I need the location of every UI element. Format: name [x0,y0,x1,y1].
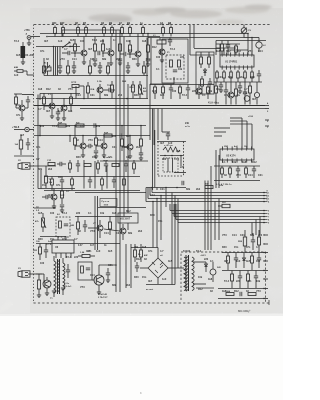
svg-text:C21: C21 [258,174,263,177]
IF transformer L1 [157,40,166,44]
resistor R35 [58,124,66,127]
transistor VT14 [51,194,57,200]
wire ic2 top3 [251,124,253,149]
resistor R33 [43,97,46,104]
ground VT2e [93,63,97,65]
transistor VT20 [97,87,103,93]
wire y207 [98,207,146,209]
svg-text:Py re ra: Py re ra [102,200,110,203]
svg-text:R1E: R1E [130,87,135,89]
resistor R85 [37,280,40,289]
capacitor C63 [124,163,128,165]
svg-text:40B: 40B [14,66,18,69]
svg-text:R40: R40 [150,214,155,217]
svg-text:68k: 68k [104,94,109,97]
resistor R28 [162,87,165,93]
svg-text:C 04 142: C 04 142 [98,293,108,296]
resistor R73 [132,85,135,92]
test point TPA [27,36,31,40]
pin stub psu 4 [264,260,268,262]
svg-text:VT3: VT3 [248,50,253,53]
svg-text:+40B: +40B [29,54,35,57]
resistor R55 [140,250,143,257]
pin stub psu 1 [264,234,268,236]
wire vertical trunk C [123,37,125,217]
svg-text:24F: 24F [205,183,209,186]
wire osc down [251,38,253,56]
svg-text:R12: R12 [198,288,203,291]
module B2 outline [196,52,214,94]
transistor VT19 power [94,275,104,285]
svg-text:R40: R40 [222,246,227,249]
resistor R80 [221,44,224,51]
capacitor C36 [135,265,139,267]
filter sub-box dashed [163,158,178,172]
oscillator coil L2 [256,42,262,48]
potentiometer R74 [139,85,142,94]
ground VT9 [50,115,54,117]
resistor R58 [243,237,246,246]
capacitor C14 [238,85,242,87]
wire bridge conn [157,248,159,259]
resistor R99 [123,179,126,185]
wire bundle v3 [57,47,59,76]
pin stub right bus2 [265,108,269,110]
capacitor C64 [60,179,64,181]
svg-text:+TB.8: +TB.8 [12,125,20,129]
capacitor C57 [243,91,247,93]
capacitor C52 [72,65,76,67]
wire psu verticals [171,193,173,285]
svg-text:C14: C14 [104,232,109,235]
svg-text:R40: R40 [76,156,81,159]
resistor R92 [84,164,91,167]
svg-text:MG 909у¹: MG 909у¹ [238,309,251,313]
svg-text:15n: 15n [42,184,47,187]
wire bundle v1 [53,47,55,76]
svg-text:4k7: 4k7 [44,40,49,43]
svg-text:1k8: 1k8 [242,161,247,164]
wire vertical trunk D [127,84,129,208]
svg-text:100: 100 [40,262,45,265]
capacitor C10 [168,39,172,41]
svg-text:47n: 47n [148,250,153,253]
IC U2 [220,149,254,160]
capacitor C15 el [254,92,259,97]
svg-text:C21: C21 [116,232,121,235]
svg-text:1n0: 1n0 [152,90,157,93]
wire psu feed [131,247,158,249]
transistor VT9 [49,103,55,109]
wire top links y75 [44,75,148,77]
svg-text:T2.4: T2.4 [66,256,72,259]
capacitor C13 [219,84,223,86]
svg-text:VT3: VT3 [256,290,261,293]
wire ic2 left feeds [214,127,230,129]
wire bridge feeds [152,202,154,248]
svg-text:R47: R47 [60,22,65,25]
resistor R17 [119,44,122,51]
capacitor C7 [118,58,122,60]
wire mb verticals [115,244,117,293]
svg-text:0.1: 0.1 [156,68,160,71]
diode VD1 [17,70,23,73]
pin stub psu 7 [264,288,268,290]
svg-text:100: 100 [50,212,55,215]
svg-text:1n0: 1n0 [162,278,167,281]
svg-text:0.1: 0.1 [248,280,252,283]
svg-text:68k: 68k [186,188,191,191]
capacitor C38 el [210,269,216,275]
wire if trunk 1 [146,38,148,99]
resistor R25 [251,72,254,78]
resistor R62 [231,274,234,281]
wire bus line 7 [174,216,264,218]
svg-text:R40: R40 [132,58,137,61]
resistor R82 [215,86,218,93]
svg-text:100: 100 [162,158,167,161]
svg-text:~24 V: ~24 V [200,254,206,257]
diode VD8 [243,258,246,260]
wire bus line 4 [146,201,264,203]
svg-text:47n: 47n [62,238,67,241]
svg-text:100: 100 [172,90,177,93]
wire bus hooks [151,188,153,193]
resistor R61 [251,256,254,263]
wire mid link [148,37,196,39]
svg-text:R12: R12 [126,135,131,138]
svg-text:1P7F: 1P7F [71,82,77,84]
svg-text:VT3: VT3 [68,88,73,91]
svg-text:0n5: 0n5 [16,54,21,57]
capacitor C40 [234,257,238,259]
ground VT19 [97,291,101,293]
detector box Z2 [157,141,186,143]
pin stub psu 5 [264,270,268,272]
svg-text:47n: 47n [40,50,45,53]
svg-text:ac rect: ac rect [146,288,153,291]
svg-text:2k2: 2k2 [240,76,245,79]
svg-text:4.7: 4.7 [74,238,78,241]
wire row2 y176 [44,176,140,178]
wire vert 177 [165,188,167,208]
wire vertical trunk A [115,30,117,244]
svg-text:220: 220 [236,280,241,283]
svg-text:10k: 10k [96,125,101,128]
capacitor C24 [88,144,90,148]
ground VT8 [20,117,24,119]
transistor VT8 [19,105,25,111]
wire y163 [100,160,148,162]
capacitor C17 [186,87,190,89]
resistor R15 [94,44,97,51]
resistor R38 [74,138,77,145]
wire under U1 [214,81,262,83]
svg-text:VT3: VT3 [222,234,227,237]
resistor R76 [67,66,70,73]
svg-text:0.1: 0.1 [80,125,84,128]
pin stub r3 [265,125,269,127]
block A1 dashed [56,217,70,237]
resistor R23 [237,72,240,78]
resistor R60 [227,256,230,263]
box DC BAT [118,213,138,223]
svg-text:4.7: 4.7 [160,250,164,253]
wire bus line 2 [150,195,264,197]
resistor R49 [221,168,224,174]
capacitor C6 [97,51,99,55]
node top1 [55,33,57,35]
resistor R97 [71,179,74,185]
svg-text:C14: C14 [150,194,155,197]
capacitor C28 [60,204,64,206]
svg-text:100: 100 [186,250,191,253]
resistor R59 [258,237,261,245]
svg-text:1n0: 1n0 [96,250,101,253]
capacitor C53 [98,65,102,67]
svg-text:+TPA: +TPA [24,29,30,32]
svg-text:10k: 10k [100,212,105,215]
capacitor C62 [104,163,108,165]
svg-text:0n5: 0n5 [160,94,165,97]
wire u2 bottom [214,180,260,182]
svg-text:+150: +150 [248,116,254,118]
svg-text:15n: 15n [16,104,21,107]
svg-text:4k7: 4k7 [48,194,53,197]
wire preamp h208 [34,207,56,209]
wire v drop1 [39,126,41,136]
wire row3 y190 [44,190,140,192]
svg-text:1k8: 1k8 [222,290,227,293]
wire row y98 [36,98,148,100]
svg-text:1k8: 1k8 [208,278,213,281]
pin stub psu 6 [264,278,268,280]
svg-text:R12: R12 [152,46,157,49]
connector X3 speaker [18,271,22,277]
wire psu row2 [222,270,264,272]
svg-text:+DC BAT: +DC BAT [120,218,130,221]
svg-text:68k: 68k [112,284,117,287]
resistor R45 [77,222,80,229]
wire psu row3 [218,288,264,290]
wire bus drop 3 [214,202,216,241]
svg-text:15n: 15n [158,220,163,223]
svg-text:4R4: 4R4 [52,22,57,25]
svg-text:1k8: 1k8 [216,50,221,53]
svg-text:1k8: 1k8 [112,135,117,138]
svg-text:R4E: R4E [122,80,127,83]
svg-text:1k8: 1k8 [112,212,117,215]
svg-text:0n5: 0n5 [168,260,173,263]
wire U1 top pins [228,49,248,51]
resistor R77 [89,66,92,73]
transistor VT2 [81,50,87,56]
capacitor C16 [169,87,173,89]
wire bus drop 2 [251,223,253,236]
svg-text:m 1a: m 1a [185,126,191,128]
IC U1 tuner [220,55,254,67]
wire vertical trunk B [119,30,121,244]
box bias [78,262,92,280]
resistor R32 [19,140,22,149]
svg-text:220: 220 [180,56,185,59]
wire y188 [38,188,75,190]
svg-text:VT3: VT3 [80,286,85,289]
wire bundle v4 [59,47,61,63]
wire left drop to IC [215,41,217,56]
wire if trunk 2 [150,38,152,85]
svg-text:2k2: 2k2 [126,284,131,287]
svg-text:2k2: 2k2 [116,58,121,61]
svg-text:T2.4: T2.4 [224,280,230,283]
transistor VT15 [97,225,103,231]
wire right bus drop [196,37,244,39]
resistor R93 [97,163,100,169]
wire vert 157 [156,188,158,191]
svg-text:220: 220 [180,166,185,169]
svg-text:U2 K174: U2 K174 [226,155,236,158]
wire base links [88,227,97,229]
svg-text:0n5: 0n5 [246,260,251,263]
svg-text:C21: C21 [112,146,117,149]
svg-text:47n: 47n [36,146,41,149]
power unit dashed box [181,252,266,302]
svg-text:1k8: 1k8 [142,246,147,249]
svg-text:R12: R12 [136,258,141,261]
svg-text:0n5: 0n5 [128,49,133,52]
svg-text:0.1: 0.1 [210,260,214,263]
svg-text:0.1: 0.1 [202,94,206,97]
wire ic2 top1 [241,118,243,149]
resistor R39 [95,138,98,145]
resistor R4 [85,28,88,34]
svg-text:C1F: C1F [47,160,52,162]
svg-text:4.7: 4.7 [36,158,40,161]
svg-text:47n: 47n [56,184,61,187]
capacitor C60 [59,162,61,166]
svg-text:4.7: 4.7 [244,88,248,91]
wire det trunk [152,109,154,191]
wire VT4 base [130,53,135,55]
resistor R50 [229,168,232,174]
svg-text:4.7: 4.7 [66,190,70,193]
resistor R30 [207,87,210,93]
label py re ra box [100,199,117,207]
resistor R43 [61,191,64,198]
resistor R3 [77,28,80,34]
wire osc drop join [190,54,214,56]
wire vt8 col [22,94,34,96]
svg-text:C.Ox: C.Ox [64,283,70,285]
svg-text:68k: 68k [228,76,233,79]
svg-text:220: 220 [204,258,209,261]
trimmer capacitor C11 [241,28,247,34]
svg-text:C14: C14 [232,234,237,237]
wire psu row1 [222,252,264,254]
resistor R20 [216,72,219,78]
svg-text:2 TA.TGT: 2 TA.TGT [98,296,108,299]
wire dashed enclosure left [33,25,35,304]
capacitor C34 [44,249,48,251]
connector X2 [18,163,22,169]
resistor R81 [235,46,238,52]
svg-text:100: 100 [156,56,161,59]
wire bus line 3 [148,198,264,200]
wire bus drop 1 [204,181,206,251]
resistor R64 [226,293,234,296]
wire z1 down [173,77,175,84]
svg-text:C21: C21 [90,94,95,97]
wire bus 2 [80,108,265,110]
resistor R46 [109,222,112,229]
resistor R71 [87,86,90,93]
resistor R86 [200,57,203,64]
wire bus line 8 [176,219,264,221]
wire +Ucc bus [34,105,265,107]
wire dashed enclosure top [34,24,271,26]
svg-text:4.7: 4.7 [38,108,42,111]
capacitor C31 [236,168,240,170]
svg-text:220: 220 [66,125,71,128]
svg-text:47n: 47n [246,246,251,249]
svg-text:T2.4: T2.4 [196,250,202,253]
resistor R1 [54,28,57,34]
wire mid verticals [94,196,96,250]
resistor R9 [142,28,145,34]
svg-text:1n0: 1n0 [58,110,63,113]
wire bus drops mid [157,109,159,141]
capacitor C56 [224,89,228,91]
transistor VT10 [61,105,67,111]
resistor R53 [39,247,42,254]
wire mid h1 [34,125,146,127]
wire row2 bus [150,84,214,86]
svg-text:T2.4: T2.4 [92,39,98,42]
svg-text:47n: 47n [224,94,229,97]
wire lower left [14,155,34,157]
svg-text:15n: 15n [146,58,151,61]
svg-text:10k: 10k [134,246,139,249]
capacitor C21 [56,111,60,113]
svg-text:C.TX: C.TX [46,244,52,246]
svg-text:T2.4: T2.4 [174,158,180,161]
pin stub psu 3 [264,252,268,254]
svg-text:VT3: VT3 [90,230,95,233]
svg-text:2.1A: 2.1A [97,80,102,83]
svg-text:41.9 +Ucc: 41.9 +Ucc [208,102,220,105]
resistor R88 [201,79,204,86]
svg-text:15n: 15n [234,246,239,249]
wire feed [75,216,132,218]
svg-text:R40: R40 [38,238,43,241]
resistor R79 [143,66,146,73]
svg-text:1R: 1R [101,22,104,25]
resistor R40 [121,139,124,146]
resistor R41 [140,139,143,146]
resistor R14 [74,44,77,51]
svg-text:0.1: 0.1 [88,212,92,215]
capacitor C42 [238,275,242,277]
svg-text:R40: R40 [250,76,255,79]
wire bus line 5 [170,210,264,212]
svg-text:0.1: 0.1 [113,39,117,42]
wire wiper arrow [62,42,70,48]
resistor R75 [43,66,46,73]
capacitor C2 electrolytic [21,46,26,58]
wire psu bottom [218,298,264,300]
capacitor C39 [251,239,255,241]
wire out top [36,243,120,245]
